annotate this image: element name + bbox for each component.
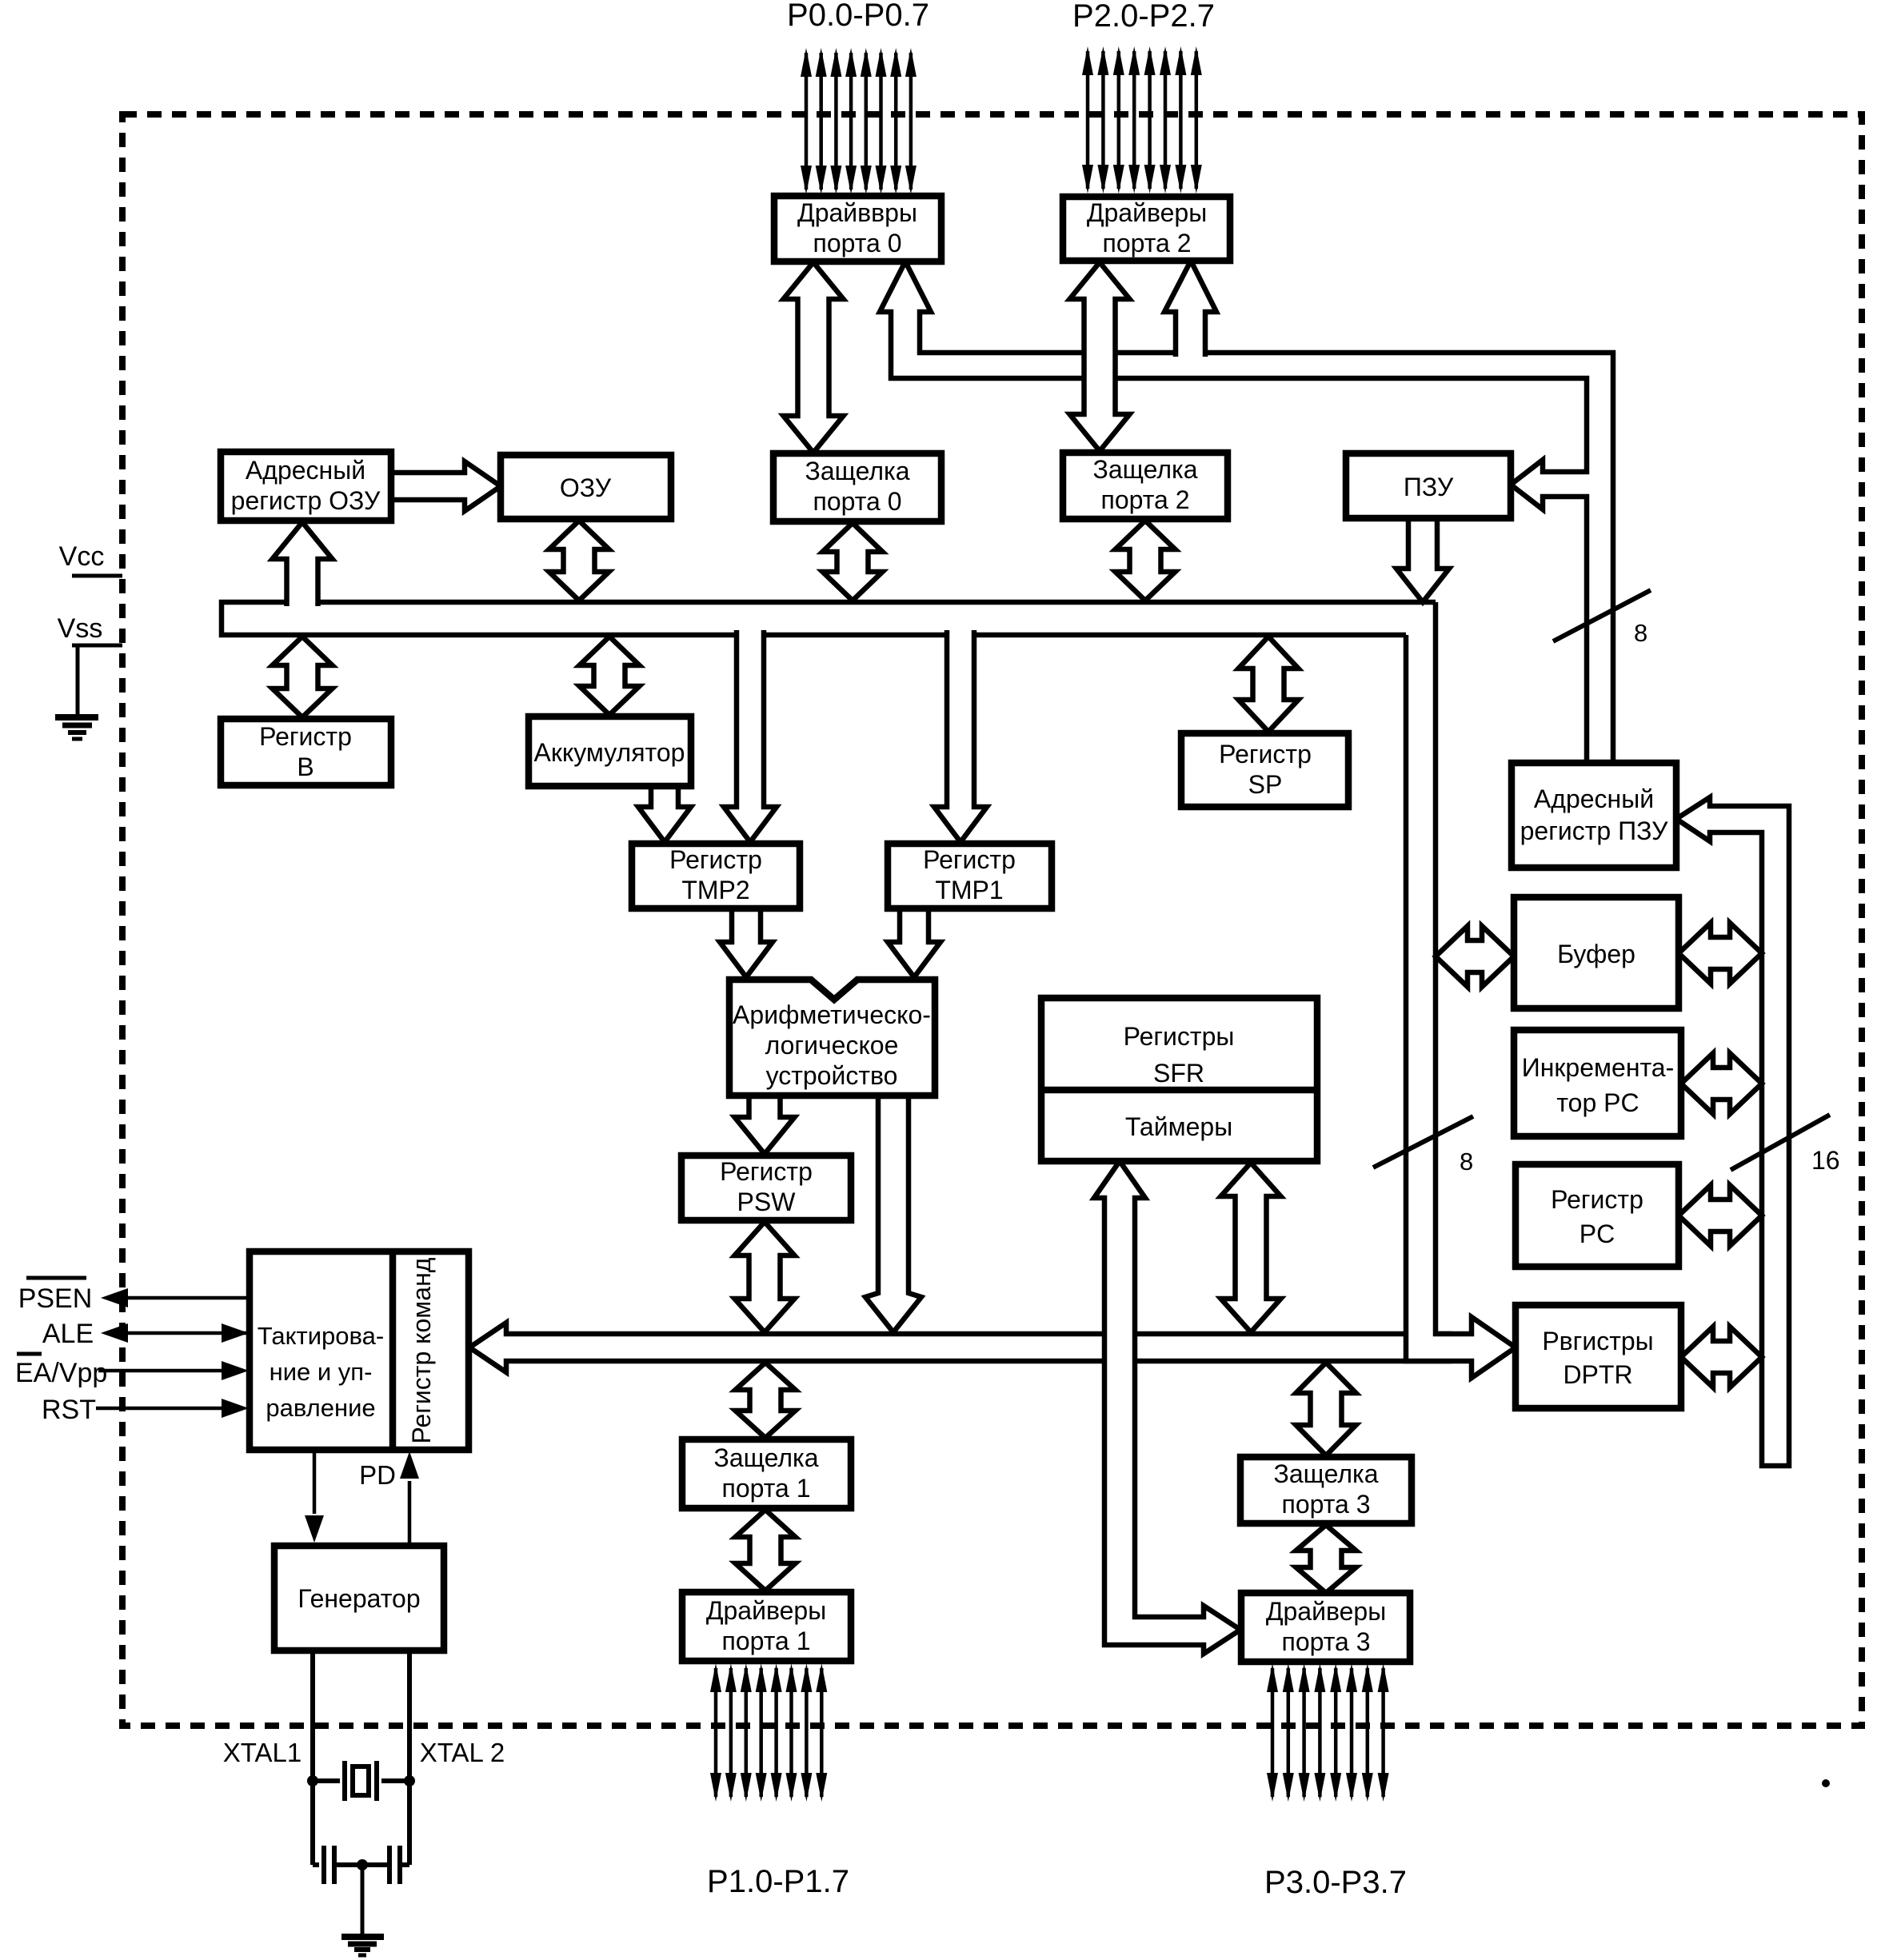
arrow: TMP1 -> ALU [888,908,941,977]
block: register TMP1 [888,844,1052,908]
svg-text:PSW: PSW [737,1188,797,1216]
arrow: buffer <-> 16-bit bus [1679,923,1762,984]
PSEN output signal [18,1278,250,1314]
block: port 2 drivers [1063,197,1230,261]
svg-text:PSEN: PSEN [18,1283,93,1314]
bus arrow: bus <-> accumulator [580,637,640,715]
EA/Vpp input signal [15,1354,249,1388]
port 1 pins P1.0-P1.7 [710,1663,827,1802]
svg-text:Драйверы: Драйверы [706,1596,826,1625]
svg-text:ние и уп-: ние и уп- [270,1358,373,1386]
bus arrow: bus -> RAM address register (up) [273,522,333,606]
svg-text:порта 0: порта 0 [813,229,902,257]
block: ROM (ПЗУ) [1346,453,1511,518]
svg-text:PC: PC [1579,1220,1615,1248]
chip boundary (dashed) [122,114,1862,1726]
svg-text:Регистры: Регистры [1124,1022,1235,1051]
block: RAM (ОЗУ) [501,455,671,519]
svg-text:8: 8 [1634,619,1647,647]
svg-text:Инкремента-: Инкремента- [1522,1053,1674,1082]
label P3.0-P3.7 [1264,1865,1407,1900]
bus arrow: SFR/timers <-> lower bus (right) [1221,1163,1281,1332]
svg-text:16: 16 [1811,1146,1840,1175]
svg-text:Vss: Vss [58,613,103,644]
svg-text:Защелка: Защелка [1274,1459,1379,1488]
label XTAL1 [223,1738,302,1767]
svg-text:P0.0-P0.7: P0.0-P0.7 [787,0,929,33]
svg-text:Регистр: Регистр [259,722,352,751]
block: buffer [1514,897,1679,1008]
svg-text:SFR: SFR [1153,1059,1204,1088]
Vss pin [58,613,122,715]
svg-text:регистр ОЗУ: регистр ОЗУ [231,486,381,515]
svg-text:регистр ПЗУ: регистр ПЗУ [1520,816,1668,845]
svg-text:устройство: устройство [766,1061,898,1090]
16-bit PC/DPTR bus (right vertical) with arrow into ROM address register [1676,797,1789,1466]
svg-text:порта 2: порта 2 [1103,229,1192,257]
svg-text:порта 2: порта 2 [1101,485,1190,514]
svg-text:Адресный: Адресный [246,456,365,485]
stray mark (scan artifact) [1822,1779,1830,1787]
svg-text:ПЗУ: ПЗУ [1404,473,1454,501]
block: register PC [1516,1164,1679,1267]
block: register PSW [681,1156,851,1220]
svg-text:Регистр: Регистр [669,845,762,874]
lower internal bus with arrow into instruction register [469,1323,1452,1372]
address bus: up-arrow to port 0 drivers, across, arrow into ROM, down to ROM address register [880,261,1613,763]
internal data bus (upper horizontal bus) [222,602,1436,635]
PD line oscillator->control [359,1451,419,1546]
capacitor C2 [362,1846,409,1884]
bus arrow: port 3 latch <-> port 3 drivers [1296,1525,1356,1593]
svg-text:Адресный: Адресный [1534,784,1654,813]
svg-text:DPTR: DPTR [1563,1360,1632,1389]
arrow: ALU -> register PSW [735,1096,795,1154]
svg-text:Генератор: Генератор [298,1584,420,1613]
svg-text:ALE: ALE [42,1319,94,1349]
block: port 2 latch [1063,453,1228,519]
svg-text:Защелка: Защелка [805,457,910,485]
bus arrow: port 2 latch <-> bus [1116,521,1176,601]
svg-text:логическое: логическое [765,1031,899,1060]
svg-text:ОЗУ: ОЗУ [560,473,612,502]
bus arrow: port 0 drivers <-> port 0 latch [784,262,844,453]
pipe: ALU -> lower bus (down arrow) [865,1096,921,1332]
port 0 pins P0.0-P0.7 [801,48,917,194]
svg-text:Драйввры: Драйввры [797,198,917,227]
svg-text:EA/Vpp: EA/Vpp [15,1358,107,1388]
svg-text:Регистр: Регистр [1219,740,1312,768]
crystal X1 [307,1761,415,1801]
bus arrow: bus <-> register SP [1239,637,1299,732]
bus arrow: port 2 drivers <-> port 2 latch [1070,262,1130,451]
block: timing & control / instruction register [250,1251,469,1450]
svg-text:P2.0-P2.7: P2.0-P2.7 [1072,0,1215,34]
arrow: accumulator -> register TMP2 [638,786,691,842]
svg-text:тор PC: тор PC [1556,1088,1639,1117]
svg-text:P3.0-P3.7: P3.0-P3.7 [1264,1865,1407,1900]
block: accumulator [529,717,691,786]
address bus branch: up-arrow to port 2 drivers [1164,261,1216,357]
svg-text:SP: SP [1248,770,1283,799]
svg-text:Тактирова-: Тактирова- [258,1322,384,1350]
block: SFR registers / timers [1041,998,1317,1161]
svg-text:Драйверы: Драйверы [1266,1597,1386,1626]
bus arrow: ROM -> bus (down) [1396,518,1449,602]
svg-text:8: 8 [1460,1148,1473,1176]
arrow: DPTR registers <-> 16-bit bus [1681,1327,1762,1387]
block: register B [221,719,391,785]
block: register SP [1181,733,1348,807]
bus width 16 (PC/DPTR bus) [1731,1115,1840,1175]
ground (Vss) [55,717,98,739]
block: ROM address register [1512,763,1676,868]
svg-text:порта 1: порта 1 [722,1627,811,1655]
arrow: register PC <-> 16-bit bus [1679,1185,1762,1246]
label P1.0-P1.7 [707,1864,849,1899]
bus arrow: port 0 latch <-> bus [823,523,883,601]
Vcc pin [59,541,122,576]
arrow: RAM address register -> RAM [391,461,501,511]
svg-text:XTAL1: XTAL1 [223,1738,302,1767]
arrow: bus -> register TMP1 [934,630,987,842]
svg-text:Буфер: Буфер [1557,940,1635,968]
svg-text:Таймеры: Таймеры [1125,1112,1232,1141]
svg-text:P1.0-P1.7: P1.0-P1.7 [707,1864,849,1899]
block: port 0 drivers [774,196,941,261]
block: DPTR registers [1516,1305,1681,1408]
label P2.0-P2.7 [1072,0,1215,34]
block: PC incrementer [1514,1030,1681,1136]
wire XTAL1 [310,1651,315,1865]
label XTAL2 [420,1738,505,1767]
bus width 8 (ROM address bus) [1553,590,1651,647]
svg-text:порта 3: порта 3 [1282,1490,1371,1519]
svg-text:порта 3: порта 3 [1282,1627,1371,1656]
arrow: TMP2 -> ALU [720,908,773,977]
svg-text:XTAL 2: XTAL 2 [420,1738,505,1767]
capacitor C1 [313,1846,362,1884]
ground (crystal) [341,1859,384,1955]
bus arrow: bus <-> register B [273,637,333,717]
svg-text:Регистр: Регистр [1551,1185,1643,1214]
svg-text:Драйверы: Драйверы [1087,198,1207,227]
label P0.0-P0.7 [787,0,929,33]
block: port 1 latch [682,1439,851,1508]
block: oscillator (генератор) [274,1546,444,1651]
block: port 3 drivers [1241,1593,1410,1662]
svg-text:B: B [297,752,314,781]
svg-text:Регистр команд: Регистр команд [407,1257,436,1443]
svg-text:порта 1: порта 1 [722,1474,811,1503]
block: RAM address register [221,452,391,521]
svg-text:Защелка: Защелка [1093,455,1198,484]
bus arrow: lower bus <-> port 3 latch [1296,1363,1356,1455]
svg-text:Регистр: Регистр [720,1157,813,1186]
svg-text:Защелка: Защелка [714,1443,819,1472]
ALE output signal [42,1319,250,1349]
port 3 pins P3.0-P3.7 [1267,1663,1389,1802]
block: port 1 drivers [682,1592,851,1661]
arrow: PC incrementer <-> 16-bit bus [1681,1053,1762,1114]
bus arrow: RAM <-> bus [549,521,609,601]
block: ALU (arithmetic-logic unit) [729,980,935,1096]
arrow: buffer <-> vertical bus (left) [1436,926,1514,987]
block: port 3 latch [1240,1457,1412,1523]
svg-text:Регистр: Регистр [923,845,1016,874]
clock line control->oscillator [305,1450,324,1543]
block: register TMP2 [632,844,800,908]
svg-text:PD: PD [359,1460,396,1490]
svg-text:порта 0: порта 0 [813,487,902,516]
RST input signal [42,1395,249,1425]
port 2 pins P2.0-P2.7 [1082,46,1202,194]
svg-text:Рвгистры: Рвгистры [1542,1327,1653,1355]
bus width 8 (lower vertical bus) [1373,1116,1473,1176]
bus arrow: port 1 latch <-> port 1 drivers [736,1510,796,1591]
block: port 0 latch [773,453,941,521]
wire XTAL2 [407,1651,412,1865]
bus arrow: PSW <-> lower bus [735,1222,795,1332]
svg-text:TMP1: TMP1 [935,876,1003,904]
arrow: bus -> register TMP2 [724,630,777,842]
svg-text:Vcc: Vcc [59,541,105,572]
bus arrow: lower bus <-> port 1 latch [736,1363,796,1438]
svg-text:Аккумулятор: Аккумулятор [534,738,685,767]
svg-text:Арифметическо-: Арифметическо- [733,1000,931,1029]
arrow: SFR up / down-right into port 3 drivers [1094,1161,1240,1654]
svg-text:TMP2: TMP2 [681,876,749,904]
svg-text:RST: RST [42,1395,96,1425]
bus from upper bus down to DPTR registers (right arrow) [1406,602,1516,1378]
svg-text:равление: равление [266,1394,375,1422]
